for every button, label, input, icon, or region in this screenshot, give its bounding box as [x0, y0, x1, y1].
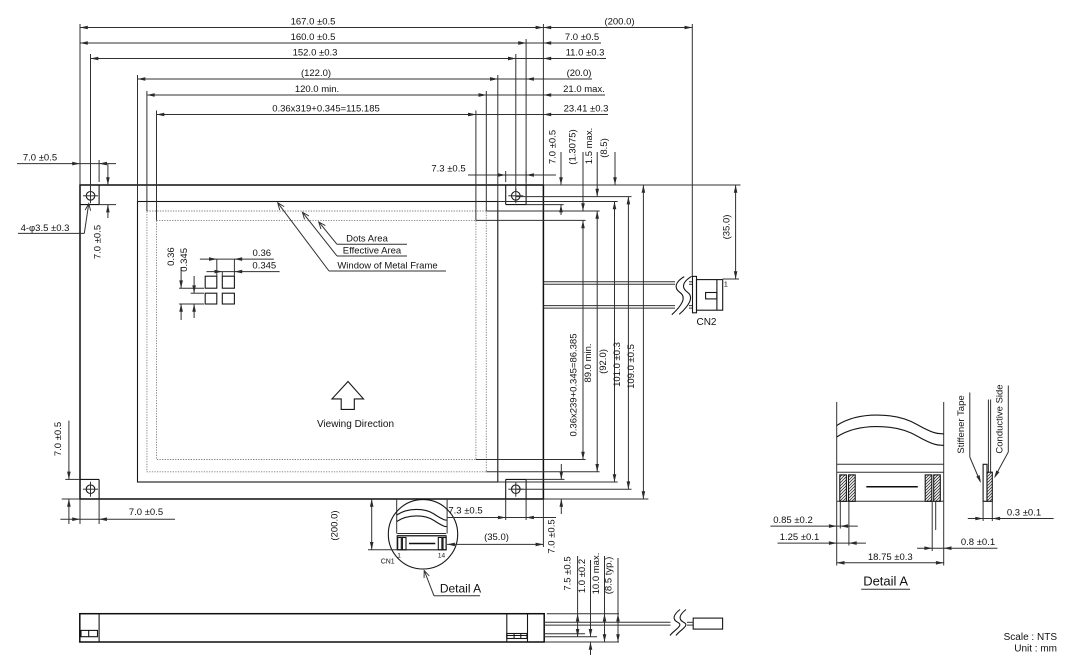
- label Detail A (enlarged view title): [861, 574, 910, 590]
- dimension (200.0) CN1 FPC length: [330, 499, 398, 550]
- dimension 23.41 +/-0.3: [468, 104, 608, 117]
- svg-text:Stiffener Tape: Stiffener Tape: [956, 395, 967, 453]
- svg-text:Detail A: Detail A: [440, 582, 481, 596]
- side view cable end plug: [693, 618, 722, 629]
- mounting hole top-right: [508, 188, 523, 203]
- dimension 167.0 +/-0.5 (module width): [80, 17, 543, 30]
- extension lines above module: [80, 24, 543, 220]
- detail A circle: [388, 500, 457, 569]
- dimension 7.0 +/-0.5 (top-left tab width): [17, 153, 116, 182]
- side view outline: [80, 614, 544, 642]
- label CN1: [381, 559, 395, 566]
- dimension 0.3 +/-0.1 FPC thickness: [968, 501, 1054, 521]
- svg-text:Window of Metal Frame: Window of Metal Frame: [337, 260, 437, 271]
- mounting tab top-right: [506, 185, 526, 205]
- svg-text:89.0 min.: 89.0 min.: [583, 343, 594, 382]
- dimension 18.75 +/-0.3: [837, 552, 944, 565]
- svg-text:11.0 ±0.3: 11.0 ±0.3: [566, 48, 605, 59]
- svg-text:Conductive Side: Conductive Side: [994, 384, 1005, 453]
- svg-text:0.36: 0.36: [166, 247, 177, 266]
- svg-text:109.0 ±0.5: 109.0 ±0.5: [626, 344, 637, 389]
- svg-text:(92.0): (92.0): [598, 349, 609, 374]
- cross-section FPC edge view: [983, 400, 992, 502]
- svg-text:7.0 ±0.5: 7.0 ±0.5: [548, 130, 559, 164]
- dimension (200.0) FPC length to CN2: [543, 17, 692, 277]
- dimension 7.0 +/-0.5 vertical (bottom-right tab height): [547, 464, 564, 554]
- svg-text:7.3 ±0.5: 7.3 ±0.5: [448, 506, 482, 517]
- detail A figure FPC sides: [837, 402, 944, 501]
- detail A connector body: [837, 464, 944, 501]
- side view left tab: [81, 614, 99, 642]
- dimension (92.0) window height: [598, 202, 616, 483]
- svg-text:4-φ3.5 ±0.3: 4-φ3.5 ±0.3: [21, 223, 70, 234]
- detail A FPC wave: [837, 415, 944, 445]
- dimension (35.0) CN2 offset: [722, 185, 738, 279]
- side view backlight cable: [544, 622, 693, 625]
- connector CN2: [693, 276, 723, 312]
- extension lines right of module top: [476, 185, 741, 220]
- dimension 120.0 min. effective area width: [147, 84, 486, 97]
- dimension 0.36x319+0.345=115.185 dots width: [157, 104, 476, 117]
- svg-text:152.0 ±0.3: 152.0 ±0.3: [293, 48, 338, 59]
- dimension 10.0 max. side view thickness: [591, 553, 606, 642]
- module front view: metal frame outline: [80, 185, 543, 499]
- svg-text:(200.0): (200.0): [604, 17, 634, 28]
- label 4-phi3.5 +/-0.3 mounting holes with leader: [18, 203, 92, 234]
- pixel pitch detail squares: [205, 276, 234, 304]
- dimension 7.0 +/-0.5 (bottom-left tab width): [60, 499, 175, 524]
- svg-text:18.75 ±0.3: 18.75 ±0.3: [868, 552, 913, 563]
- svg-text:0.85 ±0.2: 0.85 ±0.2: [773, 515, 813, 526]
- dimension 11.0 +/-0.3: [508, 48, 606, 61]
- svg-text:Effective Area: Effective Area: [343, 245, 402, 256]
- dimension 0.36 vertical pixel pitch: [166, 247, 204, 320]
- label Viewing Direction: [317, 419, 394, 430]
- dimension 0.345 horizontal: [207, 261, 280, 277]
- dimension 109.0 +/-0.5 module height: [626, 185, 645, 499]
- label Detail A with leader: [422, 569, 482, 595]
- CN1 FPC break wave: [397, 509, 447, 526]
- label Window of Metal Frame with leader: [275, 201, 446, 271]
- mounting hole bottom-right: [508, 482, 523, 497]
- svg-text:1: 1: [724, 280, 728, 289]
- label Conductive Side with leader: [993, 384, 1009, 479]
- CN2 pin 1 mark: [723, 279, 739, 289]
- dimension (8.5) vertical: [599, 138, 617, 185]
- mounting tab bottom-left: [80, 479, 99, 499]
- svg-text:Dots Area: Dots Area: [346, 234, 388, 245]
- svg-text:7.0 ±0.5: 7.0 ±0.5: [129, 507, 163, 518]
- dimension 0.85 +/-0.2: [771, 515, 858, 528]
- dimension 101.0 +/-0.3 hole spacing vertical: [612, 197, 630, 490]
- svg-text:CN2: CN2: [696, 317, 716, 328]
- svg-text:Viewing Direction: Viewing Direction: [317, 419, 394, 430]
- label Stiffener Tape with leader: [956, 393, 983, 484]
- svg-text:(8.5): (8.5): [599, 138, 610, 158]
- svg-text:7.0 ±0.5: 7.0 ±0.5: [547, 519, 558, 553]
- svg-text:7.0 ±0.5: 7.0 ±0.5: [53, 422, 64, 456]
- svg-text:(8.5 typ.): (8.5 typ.): [603, 557, 614, 595]
- label Dots Area with leader: [317, 220, 407, 244]
- dots area rectangle (dashed): [157, 220, 476, 459]
- effective area rectangle (dashed): [147, 211, 486, 472]
- CN1 pin labels 1 and 14: [397, 553, 445, 560]
- svg-text:0.36x319+0.345=115.185: 0.36x319+0.345=115.185: [272, 104, 380, 115]
- CN2 FPC cable: [543, 282, 692, 308]
- dimension 21.0 max.: [479, 84, 606, 97]
- svg-text:1.5 max.: 1.5 max.: [584, 128, 595, 164]
- svg-text:(200.0): (200.0): [330, 510, 341, 540]
- dimension 0.36x239+0.345=86.385 dots height: [569, 220, 585, 459]
- dimension (20.0): [490, 68, 592, 81]
- dimension 1.5 max. vertical: [584, 128, 599, 197]
- extension lines right of module bottom: [476, 460, 649, 500]
- viewing direction block arrow: [332, 382, 364, 410]
- dimension 1.0 +/-0.2 side view: [577, 559, 592, 655]
- mounting tab bottom-right: [506, 479, 526, 499]
- dimension 7.5 +/-0.5 side view: [562, 556, 579, 637]
- cable break squiggle: [672, 276, 692, 314]
- svg-text:1.0 ±0.2: 1.0 ±0.2: [577, 559, 588, 593]
- dimension 7.0 +/-0.5 vertical (top-left tab height): [93, 164, 116, 259]
- svg-text:7.5 ±0.5: 7.5 ±0.5: [562, 556, 573, 590]
- svg-text:0.345: 0.345: [252, 261, 276, 272]
- dimension (122.0) window width: [138, 68, 498, 81]
- connector CN1 body: [397, 534, 446, 550]
- svg-text:0.3 ±0.1: 0.3 ±0.1: [1007, 508, 1041, 519]
- svg-text:101.0 ±0.3: 101.0 ±0.3: [612, 342, 623, 387]
- dimension 89.0 min. effective height: [583, 211, 599, 472]
- svg-text:1.25 ±0.1: 1.25 ±0.1: [780, 532, 820, 543]
- dimension (35.0) CN1 to edge: [447, 499, 543, 547]
- svg-text:(35.0): (35.0): [722, 215, 733, 240]
- side view extension lines: [544, 614, 619, 642]
- dimension 7.0 +/-0.5 right vertical (tab height): [548, 130, 563, 215]
- svg-text:0.345: 0.345: [179, 248, 190, 272]
- label Effective Area with leader: [300, 210, 407, 256]
- svg-text:Scale : NTS: Scale : NTS: [1004, 632, 1058, 643]
- svg-text:7.0 ±0.5: 7.0 ±0.5: [565, 32, 599, 43]
- svg-text:23.41 ±0.3: 23.41 ±0.3: [564, 104, 609, 115]
- svg-text:7.3 ±0.5: 7.3 ±0.5: [431, 164, 465, 175]
- dimension 7.3 +/-0.5 (bottom tab width): [448, 499, 557, 520]
- svg-text:167.0 ±0.5: 167.0 ±0.5: [291, 17, 336, 28]
- svg-text:Detail A: Detail A: [863, 574, 908, 589]
- svg-text:21.0 max.: 21.0 max.: [563, 84, 605, 95]
- window of metal frame rectangle: [138, 202, 498, 483]
- side view cable break squiggle: [670, 610, 686, 636]
- dimension (1.3075) vertical: [568, 129, 585, 211]
- svg-text:0.36x239+0.345=86.385: 0.36x239+0.345=86.385: [569, 333, 580, 436]
- svg-text:10.0 max.: 10.0 max.: [591, 553, 602, 595]
- svg-text:120.0 min.: 120.0 min.: [295, 84, 339, 95]
- detail A extension lines: [837, 501, 944, 565]
- dimension 1.25 +/-0.1: [778, 532, 866, 545]
- dimension 0.345 vertical: [179, 248, 204, 318]
- label CN2: [696, 317, 716, 328]
- svg-text:14: 14: [438, 553, 446, 560]
- svg-text:0.36: 0.36: [253, 248, 272, 259]
- dimension 0.8 +/-0.1: [917, 537, 997, 550]
- dimension 152.0 +/-0.3 (hole spacing): [91, 48, 516, 61]
- svg-text:Unit : mm: Unit : mm: [1014, 644, 1057, 655]
- dimension 7.0 +/-0.5 (right top): [518, 32, 601, 45]
- svg-text:7.0 ±0.5: 7.0 ±0.5: [23, 153, 57, 164]
- mounting hole top-left: [83, 188, 98, 203]
- svg-text:(122.0): (122.0): [301, 68, 331, 79]
- svg-text:CN1: CN1: [381, 559, 395, 566]
- svg-text:(1.3075): (1.3075): [568, 129, 579, 164]
- mounting tab top-left: [80, 185, 99, 205]
- mounting hole bottom-left: [83, 482, 98, 497]
- scale and unit notes: [1004, 632, 1058, 655]
- svg-text:(20.0): (20.0): [567, 68, 592, 79]
- dimension 0.36 horizontal pixel pitch: [200, 248, 274, 276]
- dimension 160.0 +/-0.5: [80, 32, 526, 45]
- svg-text:(35.0): (35.0): [484, 532, 509, 543]
- dimension (8.5 typ.) side view: [603, 557, 620, 642]
- dimension 7.3 +/-0.5 (top tab width): [431, 164, 556, 183]
- svg-text:160.0 ±0.5: 160.0 ±0.5: [291, 32, 336, 43]
- dimension 7.0 +/-0.5 vertical (bottom-left tab height): [53, 421, 80, 524]
- connector CN1 FPC sides: [397, 499, 447, 534]
- svg-text:7.0 ±0.5: 7.0 ±0.5: [93, 225, 104, 259]
- svg-text:0.8 ±0.1: 0.8 ±0.1: [961, 537, 995, 548]
- side view right tab: [507, 614, 528, 642]
